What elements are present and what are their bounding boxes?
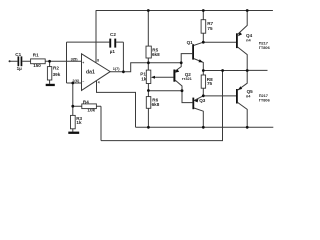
svg-text:da1: da1: [86, 70, 95, 76]
svg-text:75: 75: [207, 26, 213, 31]
svg-text:R4: R4: [83, 100, 89, 105]
svg-text:+: +: [82, 61, 84, 65]
svg-text:µ1: µ1: [110, 49, 116, 54]
svg-text:C1: C1: [15, 52, 21, 57]
svg-text:39k: 39k: [53, 72, 61, 77]
svg-text:1µ: 1µ: [17, 66, 23, 71]
svg-text:2(6): 2(6): [72, 78, 80, 83]
svg-text:6k8: 6k8: [152, 52, 160, 57]
svg-text:R2: R2: [53, 66, 59, 71]
svg-text:Q3: Q3: [199, 98, 206, 103]
svg-text:6k8: 6k8: [152, 102, 160, 107]
svg-text:гт321: гт321: [182, 76, 193, 81]
svg-text:150: 150: [33, 63, 41, 68]
svg-text:ГТ806: ГТ806: [259, 45, 271, 50]
svg-text:Q1: Q1: [187, 40, 194, 45]
svg-text:1(7): 1(7): [113, 66, 121, 71]
svg-text:R1: R1: [33, 52, 39, 57]
svg-text:75: 75: [207, 81, 213, 86]
svg-text:10k: 10k: [87, 108, 95, 113]
svg-text:−: −: [82, 79, 84, 83]
svg-text:C2: C2: [110, 32, 116, 37]
svg-text:4: 4: [98, 80, 100, 84]
svg-text:8: 8: [97, 59, 99, 63]
svg-text:ГТ806: ГТ806: [259, 98, 271, 103]
svg-text:3(5): 3(5): [71, 56, 79, 61]
svg-text:1k: 1k: [76, 120, 82, 125]
svg-text:1k: 1k: [141, 77, 147, 82]
